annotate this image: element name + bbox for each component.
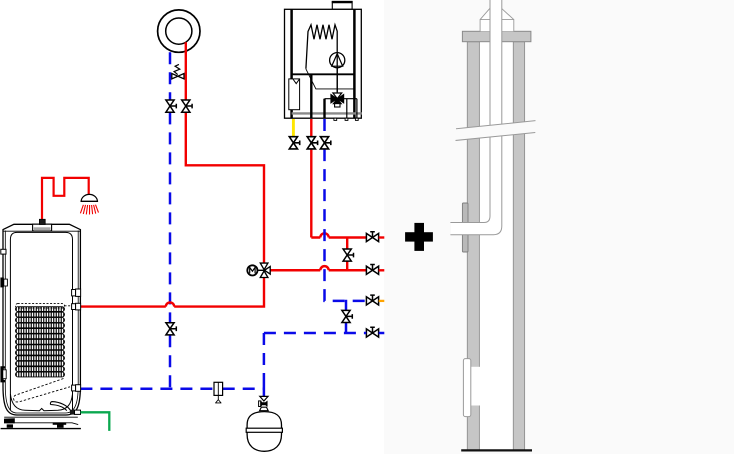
pipe: heating flow red from circle: [185, 42, 187, 99]
chimney ground line: [462, 449, 531, 451]
tank foot left: [7, 424, 13, 427]
plus sign: [405, 223, 433, 251]
tank ground line: [1, 428, 81, 430]
pipe: heating flow red valve to corner to M-valve column: [186, 112, 264, 262]
pipe: M-valve red down to tank: [80, 278, 264, 307]
TANK (DHW cylinder): [0, 219, 81, 428]
expansion vessel cap valve: [259, 396, 269, 410]
pipe: boiler return blue drop: [323, 119, 326, 137]
coil heat exchanger rows: [16, 307, 65, 377]
shower spray: [80, 205, 98, 215]
diverter valve: [331, 93, 344, 107]
pipe: heating return blue dashed lower: [169, 335, 172, 389]
chimney right wall: [513, 42, 524, 450]
pipe: blue drop to expansion vessel: [263, 333, 266, 378]
boiler bottom connection pads: [334, 118, 358, 120]
tank return port (blue): [72, 385, 81, 392]
plinth left wedge: [4, 418, 15, 423]
boiler flue cap: [332, 1, 352, 9]
tank top pipe connector: [39, 219, 45, 224]
diverter valve piping: [325, 99, 357, 119]
chimney break symbol: [456, 121, 535, 141]
pipe: boiler flow red to branch: [311, 149, 366, 237]
valve on circuit flow: [182, 100, 192, 112]
boiler casing: [285, 9, 362, 118]
heating circuit symbol (concentric circles): [158, 10, 200, 52]
valve on circuit return lower: [166, 323, 176, 335]
pipe: DHW red square wave to shower: [42, 178, 89, 220]
chimney cap cone: [480, 8, 514, 31]
branch 3 orange stub: [379, 300, 385, 302]
tank bottom plinth: [4, 417, 78, 424]
tank empty port: [72, 289, 81, 296]
gas valve: [289, 137, 299, 149]
tank drain port (green): [70, 410, 81, 415]
tank left sensor tab: [1, 249, 6, 254]
chimney top plate: [462, 31, 531, 41]
pipe: blue check column: [345, 300, 348, 334]
inner vessel bottom curve: [10, 394, 72, 411]
pipe: blue tank return line: [80, 388, 264, 391]
BOILER: [285, 1, 362, 120]
pipe: red check column lower: [346, 261, 348, 270]
boiler left inner wall: [290, 9, 293, 118]
flue wall plate at pipe entry: [462, 203, 468, 252]
pipe: blue manifold y333: [264, 332, 366, 335]
tank shell: [3, 224, 80, 415]
branch 1 red stub: [379, 236, 385, 238]
tank drain curve: [50, 402, 70, 411]
plinth right block: [53, 422, 66, 424]
tank shell inner line: [5, 231, 78, 414]
chimney left wall: [467, 42, 479, 450]
pipe: heating return blue dashed upper: [169, 52, 172, 99]
pipe: boiler flow red drop: [310, 119, 312, 137]
pipe: blue solid into vessel valve: [263, 378, 266, 397]
branch valve 4 (blue): [366, 327, 378, 337]
check valve on blue column: [342, 310, 352, 322]
boiler flow valve: [307, 137, 317, 149]
valve on circuit return: [166, 100, 176, 112]
panel diagonal line: [306, 69, 354, 89]
bypass valve between flow and return: [172, 64, 184, 79]
chimney inner shaft: [479, 42, 513, 450]
safety group on return: [214, 382, 223, 403]
tank foot right: [57, 424, 64, 427]
branch valve 1 (red): [366, 232, 378, 242]
boiler right inner wall: [353, 9, 356, 118]
branch 4 blue stub: [379, 332, 385, 335]
mixing valve motor: [247, 265, 264, 275]
boiler internal return pipe: [323, 99, 325, 119]
coil bottom diagonal pipes: [14, 379, 70, 403]
chimney background panel: [384, 0, 734, 454]
branch 2 red stub: [379, 269, 385, 271]
tank flow port (red): [72, 303, 81, 310]
cleaning door: [463, 359, 470, 417]
CHIMNEY: [451, 0, 535, 450]
branch valve 2 (red): [366, 265, 378, 275]
tank left black tab: [0, 278, 7, 288]
expansion vessel: [246, 412, 282, 452]
boiler internal shelf gray bar: [292, 112, 362, 114]
tank top seam: [3, 230, 80, 232]
tank top fitting: [33, 224, 52, 231]
pipe: boiler return blue to corner: [325, 149, 367, 301]
coil connection to red port: [65, 305, 73, 307]
pipe: red check column: [346, 238, 348, 249]
cleaning door gap: [467, 367, 480, 406]
boiler partition line: [292, 73, 355, 75]
shower head: [81, 194, 99, 201]
mixing valve body: [260, 263, 270, 277]
boiler pump: [330, 53, 345, 93]
tank left bottom bracket: [2, 367, 7, 381]
branch valve 3 (blue/orange): [366, 295, 378, 305]
heat exchanger zigzag: [306, 25, 337, 93]
inner vessel: [10, 232, 72, 410]
pipe: gas yellow: [292, 119, 295, 137]
pipe: red manifold line y270: [268, 266, 366, 270]
pipe: heating return blue dashed middle: [169, 112, 172, 322]
pipe: drain green: [81, 412, 110, 431]
coil top dashed row: [16, 304, 65, 308]
flue pipe (vertical + elbow + horizontal): [451, 0, 502, 235]
check valve on red column: [343, 249, 353, 261]
boiler internal flow pipe: [310, 74, 312, 118]
burner box: [289, 79, 300, 110]
boiler return valve: [320, 137, 330, 149]
